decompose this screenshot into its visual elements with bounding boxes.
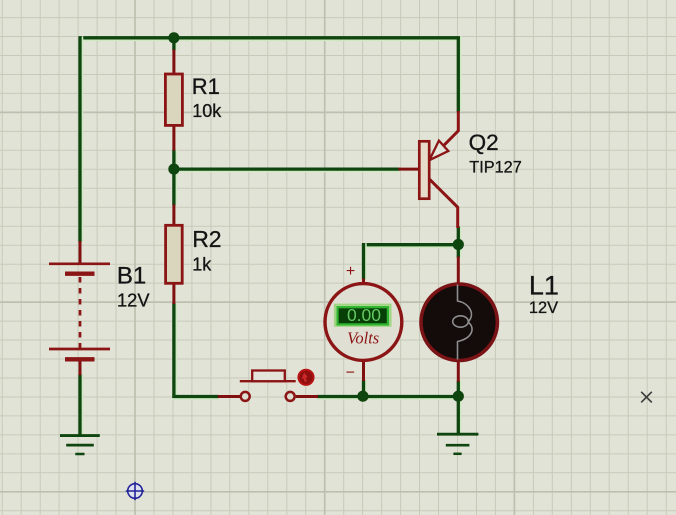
svg-text:TIP127: TIP127 [469, 158, 522, 176]
svg-text:R2: R2 [192, 226, 221, 252]
svg-text:R1: R1 [192, 74, 220, 99]
svg-text:Volts: Volts [347, 328, 379, 347]
svg-text:Q2: Q2 [469, 130, 499, 155]
svg-text:L1: L1 [529, 271, 559, 301]
svg-text:−: − [346, 365, 355, 382]
svg-text:B1: B1 [117, 263, 146, 290]
svg-text:1k: 1k [192, 254, 212, 274]
svg-text:12V: 12V [117, 290, 150, 311]
svg-text:12V: 12V [529, 299, 558, 317]
svg-text:0.00: 0.00 [347, 305, 381, 325]
svg-text:+: + [346, 263, 355, 280]
svg-text:10k: 10k [192, 101, 222, 121]
